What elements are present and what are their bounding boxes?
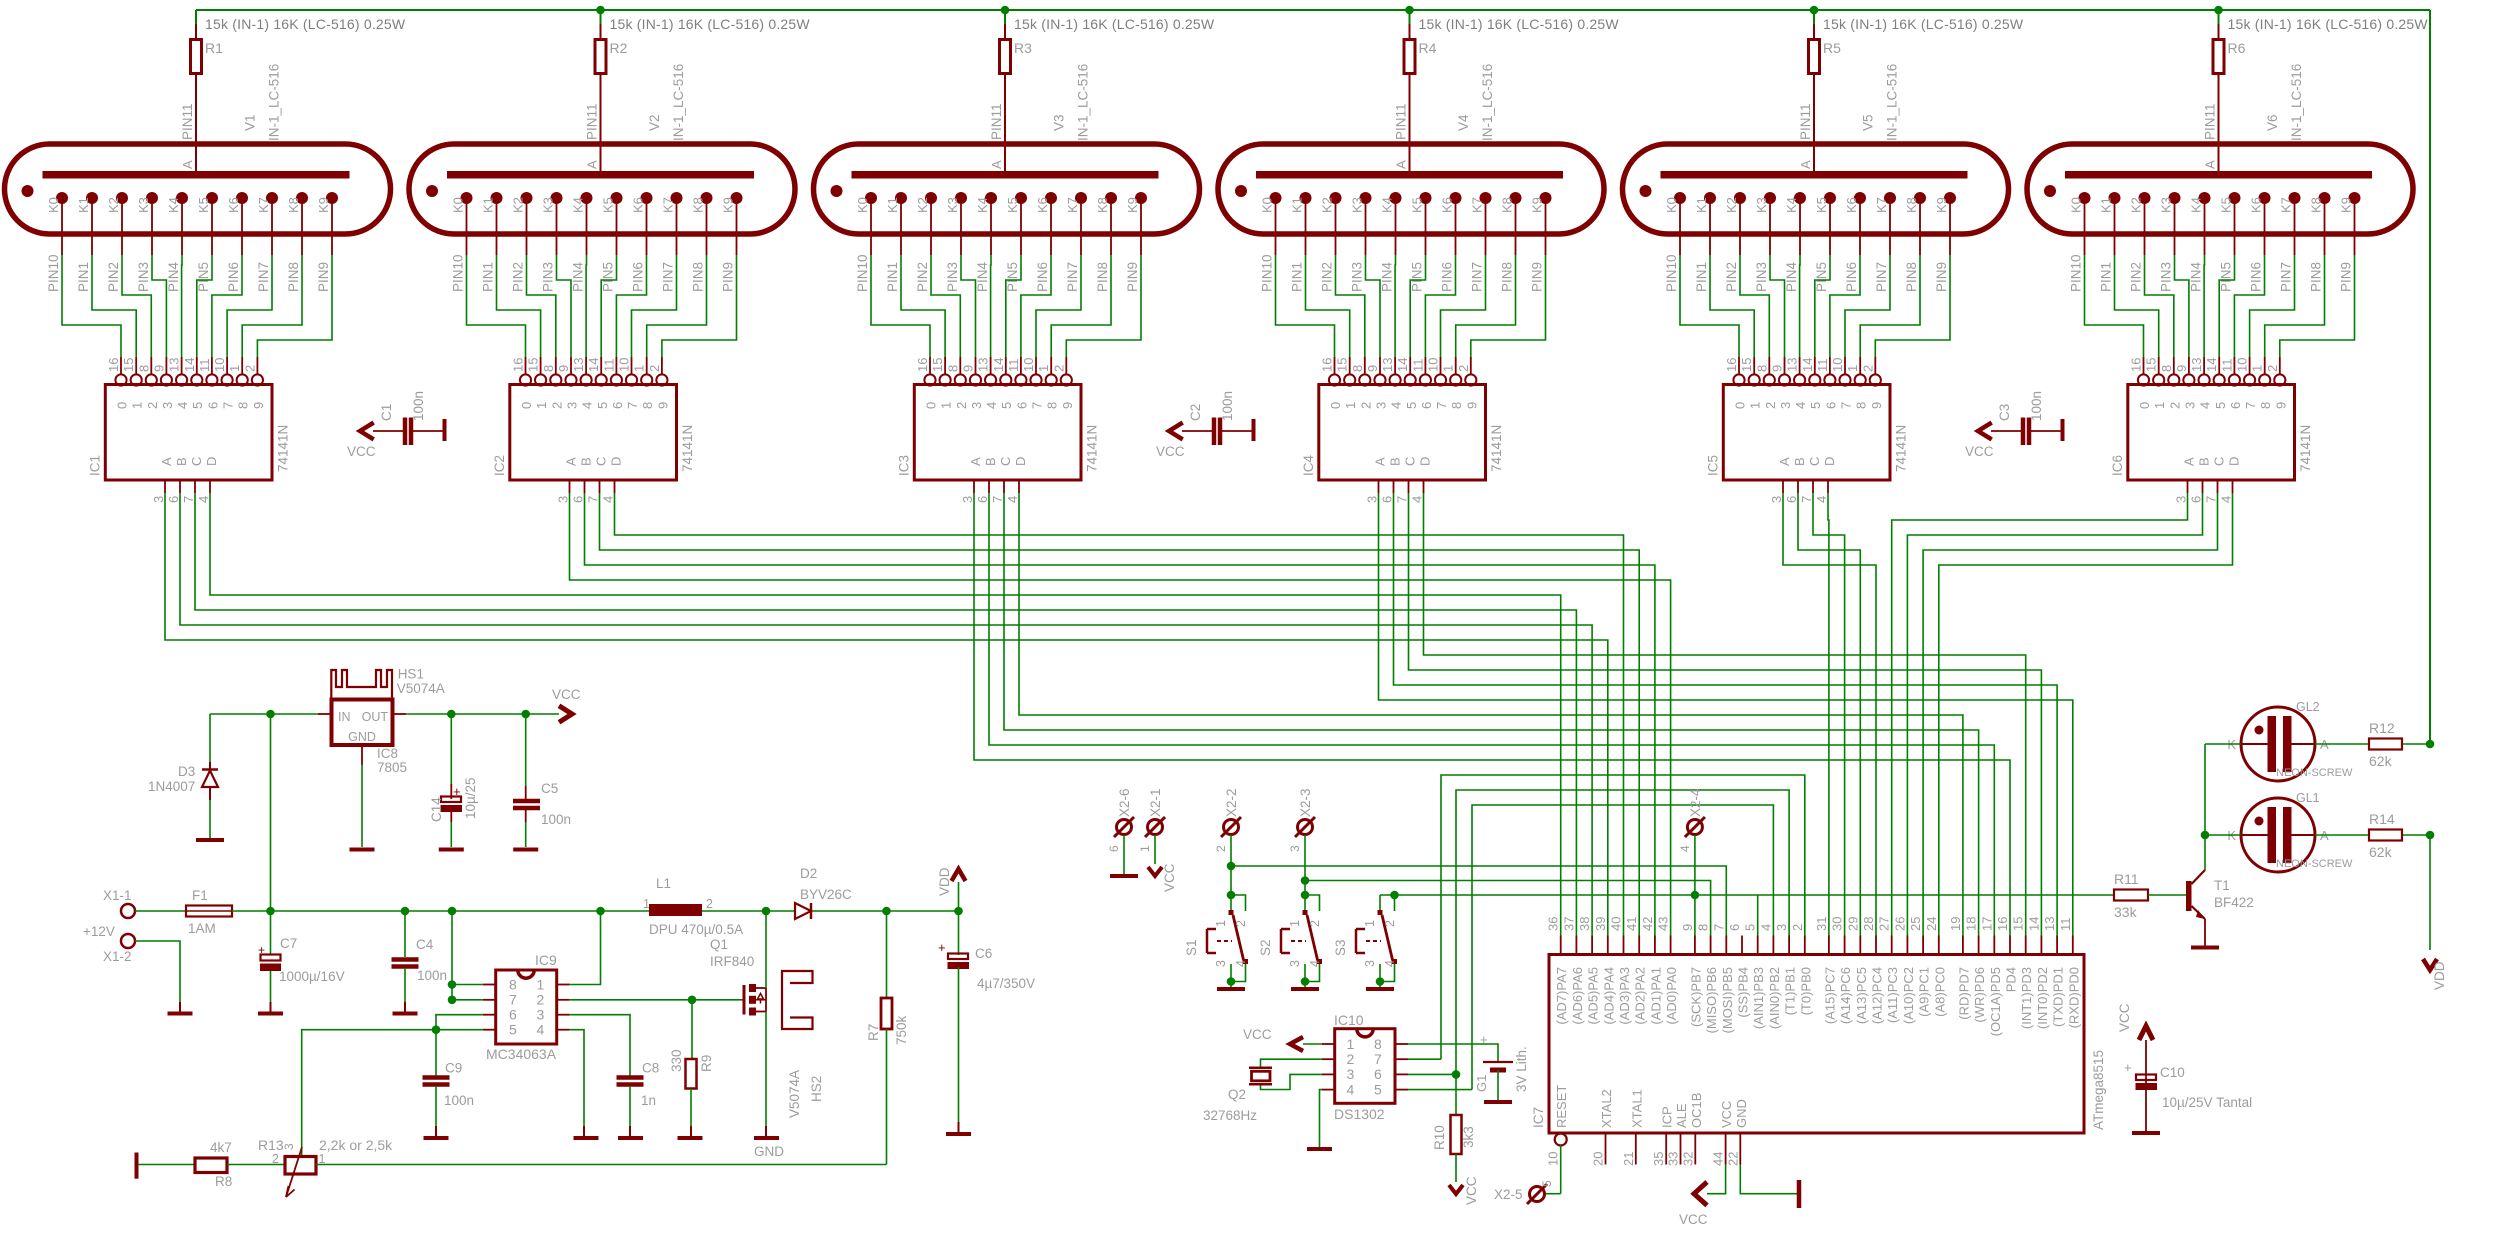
svg-text:K7: K7: [1874, 197, 1889, 213]
svg-text:0: 0: [924, 402, 939, 409]
svg-text:D: D: [1822, 457, 1837, 466]
svg-text:K4: K4: [1380, 197, 1395, 213]
svg-text:K3: K3: [2159, 197, 2174, 213]
svg-text:K4: K4: [2189, 197, 2204, 213]
svg-text:R9: R9: [699, 1055, 714, 1072]
svg-text:62k: 62k: [2369, 753, 2393, 769]
svg-text:5: 5: [1743, 924, 1758, 931]
svg-text:K5: K5: [2219, 197, 2234, 213]
svg-text:2: 2: [706, 897, 713, 911]
svg-text:8: 8: [136, 365, 151, 372]
svg-text:9: 9: [1365, 365, 1380, 372]
svg-text:NEON-SCREW: NEON-SCREW: [2276, 767, 2353, 779]
svg-text:39: 39: [1593, 917, 1608, 931]
svg-text:(A8)PC0: (A8)PC0: [1932, 967, 1947, 1017]
svg-text:1: 1: [1845, 365, 1860, 372]
svg-text:A: A: [989, 160, 1004, 169]
svg-text:PIN9: PIN9: [316, 262, 331, 292]
svg-text:10: 10: [1546, 1152, 1561, 1166]
svg-text:VCC: VCC: [1719, 1101, 1734, 1128]
svg-text:(MOSI)PB5: (MOSI)PB5: [1720, 967, 1735, 1033]
svg-text:GL1: GL1: [2296, 791, 2320, 805]
svg-text:(A11)PC3: (A11)PC3: [1885, 967, 1900, 1023]
svg-text:3: 3: [1778, 402, 1793, 409]
svg-text:PIN5: PIN5: [2219, 262, 2234, 292]
svg-text:PIN6: PIN6: [1844, 262, 1859, 292]
svg-text:X1-2: X1-2: [103, 949, 132, 964]
svg-text:35: 35: [1651, 1152, 1666, 1166]
svg-text:41: 41: [1624, 917, 1639, 931]
svg-text:XTAL2: XTAL2: [1599, 1089, 1614, 1128]
svg-text:2: 2: [647, 365, 662, 372]
svg-text:D: D: [609, 457, 624, 466]
svg-text:R2: R2: [610, 40, 628, 56]
svg-text:4: 4: [601, 496, 616, 503]
svg-text:6: 6: [610, 402, 625, 409]
svg-text:9: 9: [151, 365, 166, 372]
svg-text:15k (IN-1) 16K (LC-516) 0.25W: 15k (IN-1) 16K (LC-516) 0.25W: [2228, 16, 2429, 32]
svg-text:PIN5: PIN5: [601, 262, 616, 292]
svg-text:42: 42: [1640, 917, 1655, 931]
svg-text:X2-6: X2-6: [1117, 788, 1132, 817]
svg-text:7: 7: [1030, 402, 1045, 409]
svg-text:3: 3: [565, 402, 580, 409]
svg-text:RESET: RESET: [1554, 1085, 1569, 1128]
svg-text:IC6: IC6: [2110, 455, 2125, 476]
svg-text:2: 2: [2167, 402, 2182, 409]
svg-text:100n: 100n: [444, 1093, 474, 1108]
svg-text:R10: R10: [1432, 1125, 1447, 1150]
svg-text:100n: 100n: [541, 812, 571, 827]
svg-text:IC9: IC9: [535, 952, 557, 968]
svg-text:D3: D3: [178, 764, 195, 779]
svg-text:14: 14: [1395, 358, 1410, 372]
svg-text:K7: K7: [1470, 197, 1485, 213]
svg-text:3: 3: [282, 1143, 296, 1150]
svg-text:4: 4: [2219, 496, 2234, 503]
svg-text:ICP: ICP: [1660, 1106, 1675, 1128]
svg-text:1: 1: [1441, 365, 1456, 372]
svg-text:4: 4: [1383, 960, 1397, 967]
svg-text:15k (IN-1) 16K (LC-516) 0.25W: 15k (IN-1) 16K (LC-516) 0.25W: [1419, 16, 1620, 32]
svg-text:16: 16: [106, 358, 121, 372]
svg-text:13: 13: [571, 358, 586, 372]
svg-text:2: 2: [272, 1152, 279, 1166]
svg-text:3: 3: [1769, 496, 1784, 503]
svg-text:4: 4: [984, 402, 999, 409]
svg-text:1000µ/16V: 1000µ/16V: [279, 969, 345, 984]
svg-text:8: 8: [1374, 1036, 1382, 1052]
svg-text:2: 2: [1051, 365, 1066, 372]
svg-text:R14: R14: [2369, 811, 2395, 827]
svg-text:IC10: IC10: [1334, 1012, 1364, 1028]
svg-text:9: 9: [556, 365, 571, 372]
svg-text:4: 4: [1410, 496, 1425, 503]
svg-text:4: 4: [196, 496, 211, 503]
svg-text:2: 2: [549, 402, 564, 409]
svg-text:T1: T1: [2214, 878, 2230, 893]
svg-text:ATmega8515: ATmega8515: [2091, 1050, 2106, 1130]
svg-text:PIN7: PIN7: [1874, 262, 1889, 292]
svg-text:7: 7: [586, 496, 601, 503]
svg-text:31: 31: [1814, 917, 1829, 931]
svg-text:4: 4: [537, 1022, 545, 1038]
svg-text:4: 4: [1678, 845, 1692, 852]
svg-text:11: 11: [197, 359, 212, 373]
svg-text:8: 8: [945, 365, 960, 372]
svg-text:100n: 100n: [2029, 391, 2044, 421]
svg-text:K2: K2: [915, 197, 930, 213]
svg-text:27: 27: [1877, 917, 1892, 931]
svg-text:D: D: [1013, 457, 1028, 466]
svg-text:3: 3: [556, 496, 571, 503]
svg-text:D: D: [2227, 457, 2242, 466]
svg-text:IC1: IC1: [87, 455, 102, 476]
svg-text:74141N: 74141N: [1489, 425, 1504, 472]
svg-text:10: 10: [617, 358, 632, 372]
svg-text:DS1302: DS1302: [1334, 1106, 1385, 1122]
svg-text:6: 6: [1380, 496, 1395, 503]
svg-text:L1: L1: [656, 876, 671, 891]
svg-text:33: 33: [1666, 1152, 1681, 1166]
svg-text:3: 3: [1347, 1066, 1355, 1082]
svg-text:13: 13: [1380, 358, 1395, 372]
svg-text:8: 8: [1854, 402, 1869, 409]
svg-text:330: 330: [669, 1049, 684, 1072]
svg-text:IN-1_LC-516: IN-1_LC-516: [2289, 64, 2304, 141]
svg-text:GND: GND: [1734, 1099, 1749, 1128]
svg-text:7: 7: [990, 496, 1005, 503]
svg-text:6: 6: [509, 1007, 517, 1023]
svg-text:A: A: [968, 457, 983, 466]
svg-text:4: 4: [1758, 924, 1773, 931]
svg-text:PIN1: PIN1: [1290, 262, 1305, 292]
svg-text:A: A: [2182, 457, 2197, 466]
svg-text:37: 37: [1561, 917, 1576, 931]
svg-text:X2-1: X2-1: [1148, 788, 1163, 817]
svg-text:C2: C2: [1188, 404, 1203, 421]
svg-text:1: 1: [1214, 920, 1228, 927]
svg-text:6: 6: [1823, 402, 1838, 409]
svg-text:(A15)PC7: (A15)PC7: [1822, 967, 1837, 1024]
svg-text:11: 11: [1410, 359, 1425, 373]
svg-text:PIN8: PIN8: [2309, 262, 2324, 292]
svg-text:8: 8: [1754, 365, 1769, 372]
svg-text:PIN2: PIN2: [2129, 262, 2144, 292]
svg-text:2: 2: [954, 402, 969, 409]
svg-text:HS1: HS1: [398, 667, 424, 682]
svg-text:5: 5: [1374, 1081, 1382, 1097]
svg-text:A: A: [564, 457, 579, 466]
svg-text:26: 26: [1892, 917, 1907, 931]
svg-text:(AIN1)PB3: (AIN1)PB3: [1751, 967, 1766, 1029]
svg-text:17: 17: [1979, 917, 1994, 931]
svg-text:5: 5: [999, 402, 1014, 409]
svg-text:8: 8: [2258, 402, 2273, 409]
svg-text:R7: R7: [866, 1024, 881, 1041]
svg-text:3: 3: [1288, 960, 1302, 967]
svg-text:PIN10: PIN10: [855, 254, 870, 292]
svg-text:K2: K2: [106, 197, 121, 213]
svg-text:6: 6: [205, 402, 220, 409]
svg-text:PIN10: PIN10: [451, 254, 466, 292]
svg-text:XTAL1: XTAL1: [1629, 1089, 1644, 1128]
svg-text:16: 16: [1995, 917, 2010, 931]
svg-text:PIN9: PIN9: [1125, 262, 1140, 292]
svg-text:VCC: VCC: [552, 687, 581, 702]
svg-text:40: 40: [1609, 917, 1624, 931]
svg-text:5: 5: [1540, 1180, 1554, 1187]
svg-text:R1: R1: [205, 40, 223, 56]
svg-text:74141N: 74141N: [1893, 425, 1908, 472]
svg-text:A: A: [1798, 160, 1813, 169]
svg-text:GND: GND: [754, 1144, 784, 1159]
svg-text:11: 11: [601, 359, 616, 373]
svg-text:+: +: [2124, 1060, 2132, 1075]
svg-text:1: 1: [1288, 920, 1302, 927]
svg-text:K3: K3: [136, 197, 151, 213]
svg-text:HS2: HS2: [809, 1076, 824, 1102]
svg-text:PIN8: PIN8: [691, 262, 706, 292]
svg-text:(AD0)PA0: (AD0)PA0: [1664, 967, 1679, 1025]
svg-text:PIN5: PIN5: [196, 262, 211, 292]
svg-text:S1: S1: [1184, 939, 1199, 956]
svg-text:PIN4: PIN4: [2189, 261, 2204, 292]
svg-text:28: 28: [1861, 917, 1876, 931]
svg-text:9: 9: [1770, 365, 1785, 372]
svg-text:OC1B: OC1B: [1689, 1093, 1704, 1128]
svg-text:2: 2: [1358, 402, 1373, 409]
svg-text:PIN7: PIN7: [2279, 262, 2294, 292]
svg-text:2: 2: [1790, 924, 1805, 931]
svg-text:PIN11: PIN11: [1798, 103, 1813, 140]
svg-text:10: 10: [2235, 358, 2250, 372]
svg-text:5: 5: [509, 1022, 517, 1038]
svg-text:3: 3: [1214, 960, 1228, 967]
svg-text:K3: K3: [1754, 197, 1769, 213]
svg-text:8: 8: [541, 365, 556, 372]
svg-text:A: A: [159, 457, 174, 466]
svg-text:D2: D2: [800, 866, 817, 881]
svg-text:PIN5: PIN5: [1814, 262, 1829, 292]
svg-text:PIN6: PIN6: [2249, 262, 2264, 292]
svg-text:(INT0)PD2: (INT0)PD2: [2035, 967, 2050, 1029]
svg-text:6: 6: [1784, 496, 1799, 503]
svg-text:15k (IN-1) 16K (LC-516) 0.25W: 15k (IN-1) 16K (LC-516) 0.25W: [1014, 16, 1215, 32]
svg-text:K6: K6: [1440, 197, 1455, 213]
svg-text:5: 5: [595, 402, 610, 409]
svg-text:3V Lith.: 3V Lith.: [1514, 1046, 1529, 1092]
svg-text:(MISO)PB6: (MISO)PB6: [1704, 967, 1719, 1033]
svg-text:2: 2: [1347, 1051, 1355, 1067]
svg-text:8: 8: [1696, 924, 1711, 931]
svg-text:9: 9: [1869, 402, 1884, 409]
svg-text:PIN3: PIN3: [2159, 262, 2174, 292]
svg-text:PIN1: PIN1: [481, 262, 496, 292]
svg-text:16: 16: [1724, 358, 1739, 372]
svg-text:100n: 100n: [417, 968, 447, 983]
svg-text:K1: K1: [1290, 197, 1305, 213]
svg-text:7: 7: [1711, 924, 1726, 931]
svg-text:74141N: 74141N: [680, 425, 695, 472]
svg-text:K9: K9: [1125, 197, 1140, 213]
svg-text:PIN1: PIN1: [76, 262, 91, 292]
svg-text:10µ/25: 10µ/25: [463, 777, 478, 819]
svg-text:PIN3: PIN3: [136, 262, 151, 292]
svg-text:K8: K8: [286, 197, 301, 213]
svg-text:C7: C7: [280, 936, 297, 951]
svg-text:PIN9: PIN9: [2339, 262, 2354, 292]
svg-text:(AD2)PA2: (AD2)PA2: [1633, 967, 1648, 1025]
svg-text:4: 4: [580, 402, 595, 409]
svg-text:25: 25: [1908, 917, 1923, 931]
svg-text:VDD: VDD: [937, 867, 952, 896]
svg-text:+: +: [453, 784, 461, 799]
svg-text:7: 7: [221, 402, 236, 409]
svg-text:14: 14: [2026, 917, 2041, 931]
svg-text:K1: K1: [481, 197, 496, 213]
svg-text:(A14)PC6: (A14)PC6: [1838, 967, 1853, 1024]
svg-text:16: 16: [2129, 358, 2144, 372]
svg-text:(A10)PC2: (A10)PC2: [1901, 967, 1916, 1024]
svg-text:(SS)PB4: (SS)PB4: [1736, 967, 1751, 1018]
svg-text:2: 2: [1214, 845, 1228, 852]
svg-text:22: 22: [1725, 1152, 1740, 1166]
svg-text:PIN9: PIN9: [721, 262, 736, 292]
svg-text:7: 7: [1839, 402, 1854, 409]
svg-text:(OC1A)PD5: (OC1A)PD5: [1988, 967, 2003, 1036]
svg-text:7: 7: [2204, 496, 2219, 503]
svg-text:7: 7: [1434, 402, 1449, 409]
svg-text:PIN11: PIN11: [180, 103, 195, 140]
svg-text:ALE: ALE: [1674, 1103, 1689, 1128]
svg-text:15k (IN-1) 16K (LC-516) 0.25W: 15k (IN-1) 16K (LC-516) 0.25W: [1823, 16, 2024, 32]
svg-text:(TXD)PD1: (TXD)PD1: [2051, 967, 2066, 1027]
svg-text:C: C: [1807, 457, 1822, 466]
svg-text:6: 6: [571, 496, 586, 503]
svg-text:6: 6: [2228, 402, 2243, 409]
svg-text:IC5: IC5: [1705, 455, 1720, 476]
svg-text:15k (IN-1) 16K (LC-516) 0.25W: 15k (IN-1) 16K (LC-516) 0.25W: [205, 16, 406, 32]
svg-text:IC2: IC2: [492, 455, 507, 476]
svg-text:8: 8: [1350, 365, 1365, 372]
svg-text:K6: K6: [1844, 197, 1859, 213]
svg-text:32: 32: [1680, 1152, 1695, 1166]
svg-text:PIN6: PIN6: [631, 262, 646, 292]
svg-text:4: 4: [2198, 402, 2213, 409]
svg-text:BF422: BF422: [2214, 895, 2254, 910]
svg-text:9: 9: [961, 365, 976, 372]
svg-text:PIN11: PIN11: [585, 103, 600, 140]
svg-text:13: 13: [167, 358, 182, 372]
svg-text:11: 11: [2219, 359, 2234, 373]
svg-text:B: B: [1792, 457, 1807, 466]
svg-text:0: 0: [115, 402, 130, 409]
svg-text:PIN2: PIN2: [106, 262, 121, 292]
svg-text:2: 2: [1860, 365, 1875, 372]
svg-text:K1: K1: [885, 197, 900, 213]
svg-text:PIN3: PIN3: [945, 262, 960, 292]
svg-text:1AM: 1AM: [188, 921, 216, 936]
svg-text:7: 7: [1374, 1051, 1382, 1067]
svg-text:3: 3: [1774, 924, 1789, 931]
svg-text:100n: 100n: [411, 391, 426, 421]
svg-text:(AD3)PA3: (AD3)PA3: [1617, 967, 1632, 1025]
svg-text:NEON-SCREW: NEON-SCREW: [2276, 858, 2353, 870]
svg-text:(SCK)PB7: (SCK)PB7: [1688, 967, 1703, 1027]
svg-text:S2: S2: [1258, 939, 1273, 956]
svg-text:K9: K9: [2339, 197, 2354, 213]
svg-text:(T1)PB1: (T1)PB1: [1783, 967, 1798, 1015]
svg-text:1: 1: [534, 402, 549, 409]
svg-text:K8: K8: [1904, 197, 1919, 213]
svg-text:K6: K6: [2249, 197, 2264, 213]
svg-text:C: C: [998, 457, 1013, 466]
svg-text:(RXD)PD0: (RXD)PD0: [2066, 967, 2081, 1028]
svg-text:K4: K4: [166, 197, 181, 213]
svg-text:5: 5: [190, 402, 205, 409]
svg-text:VCC: VCC: [1162, 863, 1177, 892]
svg-text:K2: K2: [2129, 197, 2144, 213]
svg-text:4: 4: [1308, 960, 1322, 967]
svg-text:VCC: VCC: [1243, 1027, 1272, 1042]
svg-text:15: 15: [1739, 358, 1754, 372]
svg-text:3: 3: [1363, 960, 1377, 967]
svg-text:7: 7: [181, 496, 196, 503]
svg-text:IN-1_LC-516: IN-1_LC-516: [267, 64, 282, 141]
svg-text:C6: C6: [975, 946, 992, 961]
svg-text:44: 44: [1711, 1152, 1726, 1166]
svg-text:10: 10: [1426, 358, 1441, 372]
svg-text:4: 4: [1389, 402, 1404, 409]
svg-text:C3: C3: [1997, 404, 2012, 421]
svg-text:74141N: 74141N: [1084, 425, 1099, 472]
svg-text:F1: F1: [192, 888, 208, 903]
svg-text:4µ7/350V: 4µ7/350V: [977, 976, 1035, 991]
svg-text:PIN5: PIN5: [1410, 262, 1425, 292]
svg-text:3: 3: [2174, 496, 2189, 503]
svg-text:V3: V3: [1052, 114, 1067, 131]
svg-text:PIN4: PIN4: [571, 261, 586, 292]
svg-text:15: 15: [1335, 358, 1350, 372]
svg-text:V6: V6: [2265, 114, 2280, 131]
svg-text:PIN11: PIN11: [2203, 103, 2218, 140]
svg-text:X1-1: X1-1: [103, 888, 132, 903]
svg-text:38: 38: [1577, 917, 1592, 931]
svg-text:15: 15: [930, 358, 945, 372]
svg-text:R3: R3: [1014, 40, 1032, 56]
svg-text:+: +: [1480, 1032, 1488, 1047]
svg-text:PIN4: PIN4: [166, 261, 181, 292]
svg-text:15k (IN-1) 16K (LC-516) 0.25W: 15k (IN-1) 16K (LC-516) 0.25W: [610, 16, 811, 32]
svg-text:(AIN0)PB2: (AIN0)PB2: [1767, 967, 1782, 1029]
svg-text:4k7: 4k7: [210, 1140, 232, 1155]
svg-text:3: 3: [969, 402, 984, 409]
svg-text:PIN11: PIN11: [989, 103, 1004, 140]
svg-text:IC7: IC7: [1531, 1107, 1546, 1128]
svg-text:6: 6: [166, 496, 181, 503]
svg-text:7: 7: [509, 992, 517, 1008]
svg-text:6: 6: [2189, 496, 2204, 503]
svg-text:IN-1_LC-516: IN-1_LC-516: [1076, 64, 1091, 141]
svg-text:3k3: 3k3: [1461, 1126, 1476, 1148]
svg-text:D: D: [1418, 457, 1433, 466]
svg-text:PIN6: PIN6: [1035, 262, 1050, 292]
svg-text:K5: K5: [1410, 197, 1425, 213]
svg-text:36: 36: [1546, 917, 1561, 931]
svg-text:2: 2: [1308, 920, 1322, 927]
svg-text:PIN10: PIN10: [2069, 254, 2084, 292]
